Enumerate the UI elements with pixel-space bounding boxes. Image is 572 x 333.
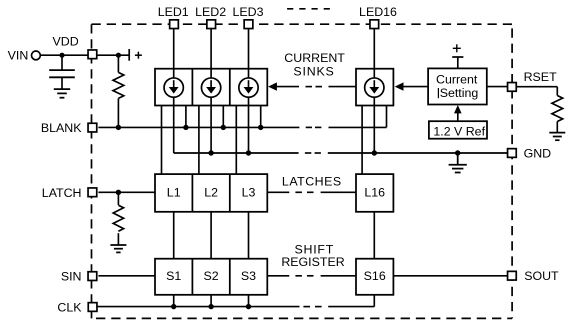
wire L2 to S2 xyxy=(210,212,212,259)
pin GND xyxy=(508,149,517,158)
capacitor C1 xyxy=(49,55,75,89)
current setting block U2 xyxy=(428,68,487,104)
ground (internal) xyxy=(449,153,467,173)
node GND internal xyxy=(455,150,460,155)
node CLK S1 xyxy=(171,304,176,309)
svg-text:Current: Current xyxy=(436,73,478,87)
node VIN/C1 junction xyxy=(59,53,64,58)
node BLANK ch3 xyxy=(258,125,263,130)
IC boundary dashed box xyxy=(92,24,513,318)
svg-text:SINKS: SINKS xyxy=(293,65,334,79)
svg-text:S1: S1 xyxy=(166,269,181,283)
wire CLK rail xyxy=(97,295,374,307)
svg-text:SOUT: SOUT xyxy=(524,269,559,283)
terminal VIN xyxy=(32,51,41,60)
wire sink ch1 to GND rail xyxy=(173,97,175,153)
svg-text:1.2 V Ref: 1.2 V Ref xyxy=(433,124,485,138)
arrow 1.2V ref to current setting xyxy=(454,105,462,121)
wire sink ch3 output to L3 xyxy=(235,106,237,175)
ground (R2) xyxy=(110,245,126,252)
svg-text:BLANK: BLANK xyxy=(41,121,82,135)
wire S16 to SOUT xyxy=(393,275,508,277)
wire L16 to S16 xyxy=(373,212,375,259)
pin LATCH xyxy=(88,188,97,197)
wire S2 to CLK rail xyxy=(210,295,212,307)
wire LED2 to sink xyxy=(210,29,212,78)
svg-text:S3: S3 xyxy=(241,269,256,283)
current source symbol ch3 xyxy=(239,78,258,97)
wire sink ch2 to BLANK rail xyxy=(222,106,224,128)
svg-text:L16: L16 xyxy=(364,185,385,199)
wire RSET to R3 xyxy=(516,87,558,96)
resistor R2 (LATCH pulldown) xyxy=(113,192,123,245)
wire VDD pin to V+ bar xyxy=(97,54,130,56)
current source symbol ch2 xyxy=(201,78,220,97)
ground (R3) xyxy=(549,133,565,141)
wire sink ch1 output to L1 xyxy=(161,106,163,175)
current source symbol ch16 xyxy=(365,78,384,97)
svg-text:LATCH: LATCH xyxy=(42,186,82,200)
current source symbol ch1 xyxy=(164,78,183,97)
node LATCH/R2 xyxy=(116,190,121,195)
wire sink ch16 to BLANK rail xyxy=(386,106,388,128)
wire sink ch16 to GND rail xyxy=(373,97,375,153)
wire LED16 to sink xyxy=(373,29,375,78)
wire sink ch1 to BLANK rail xyxy=(185,106,187,128)
pin SOUT xyxy=(508,271,517,280)
node BLANK ch2 xyxy=(221,125,226,130)
wire LED1 to sink xyxy=(173,29,175,78)
pin RSET xyxy=(508,83,517,92)
ground (C1) xyxy=(54,89,70,98)
text cursor artifact in current setting box xyxy=(437,88,439,98)
wire LED3 to sink xyxy=(248,29,250,78)
pin SIN xyxy=(88,272,97,281)
svg-text:LED2: LED2 xyxy=(195,5,226,19)
node BLANK/R1 xyxy=(116,125,121,130)
wire LATCH to L1 xyxy=(98,191,155,193)
plus sign V+ xyxy=(135,52,142,59)
latch box L16 xyxy=(356,174,393,212)
wire BLANK rail xyxy=(98,126,386,128)
svg-text:LATCHES: LATCHES xyxy=(282,174,342,188)
svg-text:VDD: VDD xyxy=(53,35,79,49)
wire SIN to S1 xyxy=(98,275,155,277)
plus sign (current setting) xyxy=(453,44,461,52)
wire VIN to VDD pin xyxy=(40,54,88,56)
svg-text:LED3: LED3 xyxy=(233,5,264,19)
wire L1 to S1 xyxy=(173,212,175,259)
svg-text:CLK: CLK xyxy=(57,301,82,315)
node GND ch3 xyxy=(246,150,251,155)
pin VDD xyxy=(88,50,97,59)
svg-text:VIN: VIN xyxy=(8,48,29,62)
wire sink ch2 output to L2 xyxy=(198,106,200,175)
svg-text:S16: S16 xyxy=(364,269,386,283)
wire sink ch16 output to L16 xyxy=(361,106,363,175)
shift register box S1-S3 xyxy=(155,259,267,295)
wire sink ch2 to GND rail xyxy=(210,97,212,153)
terminal V+ bar xyxy=(128,49,130,61)
svg-text:Setting: Setting xyxy=(440,86,479,100)
node CLK S3 xyxy=(246,304,251,309)
node BLANK ch1 xyxy=(183,125,188,130)
wire sink ch3 to BLANK rail xyxy=(260,106,262,128)
pin CLK xyxy=(88,303,97,312)
shift register box S16 xyxy=(356,259,393,295)
arrow current setting rail to sinks 1-3 xyxy=(268,82,356,90)
node GND ch16 xyxy=(372,150,377,155)
svg-text:L3: L3 xyxy=(242,185,256,199)
latches box L1-L3 xyxy=(155,174,267,212)
arrow current setting to sink ch16 xyxy=(395,82,428,90)
svg-text:LED16: LED16 xyxy=(359,5,397,19)
wire shift rail S3 to S16 xyxy=(267,275,356,277)
node CLK S2 xyxy=(208,304,213,309)
svg-text:SIN: SIN xyxy=(61,270,82,284)
svg-text:CURRENT: CURRENT xyxy=(284,51,345,65)
pin LED16 xyxy=(370,20,379,29)
reference block 1.2V xyxy=(429,121,487,139)
svg-text:RSET: RSET xyxy=(524,70,557,84)
pin LED1 xyxy=(170,20,179,29)
resistor R3 (RSET) xyxy=(552,96,563,133)
svg-text:REGISTER: REGISTER xyxy=(281,255,344,269)
wire S1 to CLK rail xyxy=(173,295,175,307)
current sink box (channel 16) xyxy=(356,69,393,106)
svg-text:L1: L1 xyxy=(167,185,181,199)
pin LED3 xyxy=(244,20,253,29)
wire L3 to S3 xyxy=(248,212,250,259)
wire current setting to RSET pin xyxy=(487,86,508,88)
pin LED2 xyxy=(207,20,216,29)
svg-text:LED1: LED1 xyxy=(158,5,189,19)
current sinks box (channels 1-3) xyxy=(155,69,267,106)
svg-text:GND: GND xyxy=(524,147,552,161)
node GND ch2 xyxy=(208,150,213,155)
wire S3 to CLK rail xyxy=(248,295,250,307)
wire sink ch3 to GND rail xyxy=(248,97,250,153)
pin BLANK xyxy=(88,123,97,132)
terminal V+ (current setting) xyxy=(452,57,463,68)
svg-text:L2: L2 xyxy=(204,185,218,199)
node VDD/R1 junction xyxy=(116,53,121,58)
wire GND rail xyxy=(174,152,508,154)
svg-text:S2: S2 xyxy=(204,269,219,283)
wire LATCH rail continuation to L16 xyxy=(267,191,356,193)
resistor R1 (VDD to BLANK) xyxy=(113,55,124,127)
dashes LED3 to LED16 xyxy=(287,8,331,10)
